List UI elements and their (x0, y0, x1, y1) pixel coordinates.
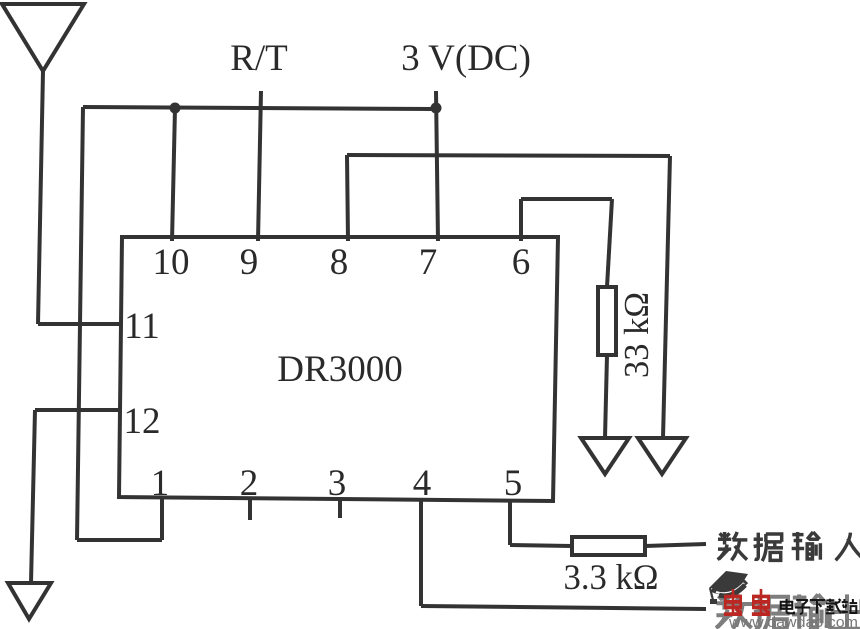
svg-text:7: 7 (419, 242, 438, 283)
svg-text:9: 9 (240, 242, 259, 283)
svg-text:DR3000: DR3000 (277, 349, 402, 390)
svg-text:6: 6 (512, 242, 531, 283)
svg-text:11: 11 (124, 306, 160, 347)
svg-text:33 kΩ: 33 kΩ (617, 292, 656, 378)
svg-text:3: 3 (328, 463, 347, 504)
svg-text:R/T: R/T (230, 38, 288, 79)
svg-text:3.3 kΩ: 3.3 kΩ (564, 557, 659, 597)
svg-text:10: 10 (153, 242, 190, 283)
svg-text:5: 5 (504, 463, 523, 504)
svg-text:www.dawdao.com: www.dawdao.com (728, 614, 858, 629)
svg-text:1: 1 (151, 463, 170, 504)
svg-text:8: 8 (330, 242, 349, 283)
svg-text:4: 4 (413, 463, 432, 504)
svg-text:12: 12 (124, 401, 161, 442)
svg-text:2: 2 (240, 463, 259, 504)
svg-text:3 V(DC): 3 V(DC) (401, 38, 531, 79)
